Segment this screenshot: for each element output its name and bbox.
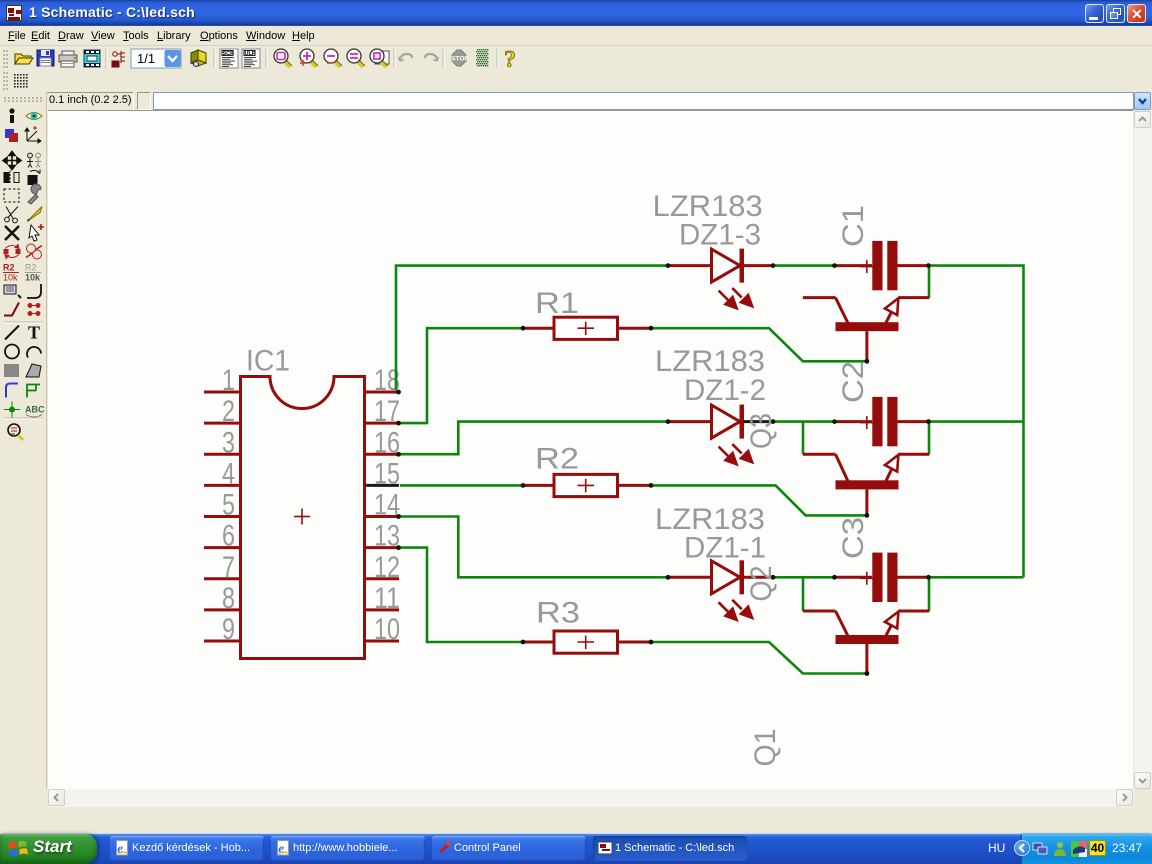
svg-text:SCR: SCR [223, 51, 235, 57]
svg-text:ULP: ULP [245, 51, 256, 57]
svg-text:?: ? [504, 47, 516, 70]
svg-text:1: 1 [222, 364, 235, 397]
svg-text:10k: 10k [3, 273, 18, 283]
svg-text:ABC: ABC [25, 405, 45, 415]
svg-text:IC1: IC1 [246, 345, 290, 378]
svg-text:5: 5 [222, 489, 235, 522]
svg-text:DZ1-1: DZ1-1 [684, 532, 766, 565]
svg-text:Q2: Q2 [745, 566, 778, 602]
svg-text:16: 16 [374, 426, 400, 459]
svg-text:12: 12 [374, 551, 400, 584]
svg-text:DZ1-3: DZ1-3 [679, 218, 761, 251]
svg-text:15: 15 [374, 457, 400, 490]
svg-text:17: 17 [374, 395, 400, 428]
svg-text:DZ1-2: DZ1-2 [684, 374, 766, 407]
svg-text:10k: 10k [25, 273, 41, 283]
svg-text:7: 7 [222, 551, 235, 584]
svg-text:Q3: Q3 [745, 413, 778, 449]
svg-text:2: 2 [222, 395, 235, 428]
svg-text:R2: R2 [535, 443, 579, 476]
svg-text:T: T [28, 323, 40, 343]
svg-text:STOP: STOP [451, 56, 469, 63]
svg-text:13: 13 [374, 520, 400, 553]
svg-text:3: 3 [222, 426, 235, 459]
svg-text:9: 9 [222, 613, 235, 646]
svg-text:R2: R2 [3, 263, 15, 273]
svg-text:4: 4 [222, 457, 235, 490]
svg-text:6: 6 [222, 520, 235, 553]
svg-text:14: 14 [374, 489, 400, 522]
svg-text:C3: C3 [837, 517, 870, 559]
svg-text:Q1: Q1 [749, 729, 782, 767]
svg-text:8: 8 [222, 582, 235, 615]
svg-text:R2: R2 [25, 263, 37, 273]
svg-text:1/1: 1/1 [137, 51, 155, 66]
svg-text:C1: C1 [837, 205, 870, 247]
svg-text:C2: C2 [837, 361, 870, 403]
svg-text:R3: R3 [536, 597, 580, 630]
svg-text:11: 11 [374, 582, 400, 615]
svg-text:10: 10 [374, 613, 400, 646]
svg-text:R1: R1 [535, 287, 579, 320]
